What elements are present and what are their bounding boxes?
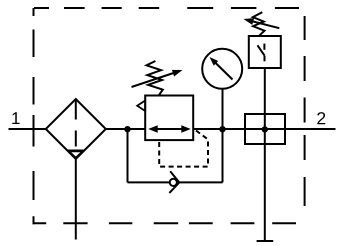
outlet module box — [245, 114, 285, 144]
regulator flow path double arrow line — [153, 128, 186, 130]
wire: bypass lower line right — [179, 181, 222, 183]
filter separator triangle — [69, 151, 83, 157]
port 1 label — [12, 112, 19, 124]
service unit enclosure dashed frame left — [33, 8, 35, 224]
wire: relief valve to outlet module — [264, 68, 266, 114]
exhaust end bar — [257, 240, 274, 242]
filter separator chord — [67, 150, 84, 152]
node: junction downstream of regulator (gauge tap) — [219, 126, 225, 132]
relief valve seat stub — [263, 44, 265, 50]
regulator flow arrowhead left — [148, 125, 158, 132]
regulator adjustment arrow shaft — [132, 73, 176, 88]
relief valve poppet lower stem — [264, 56, 266, 62]
regulator vent triangle — [137, 101, 145, 112]
wire: filter to regulator — [106, 128, 145, 130]
relief valve spring — [253, 12, 265, 36]
wire: bypass lower line left — [128, 181, 170, 183]
relief valve adjustment arrowhead — [244, 18, 255, 25]
node: junction upstream of regulator — [124, 126, 130, 132]
relief valve body box — [249, 36, 281, 68]
regulator flow arrowhead right — [181, 125, 191, 132]
pressure gauge needle shaft — [214, 61, 233, 79]
service unit enclosure dashed frame right — [304, 16, 306, 206]
service unit enclosure dashed frame bottom — [33, 222, 297, 224]
check valve seat — [169, 171, 179, 193]
service unit enclosure dashed frame top — [34, 7, 299, 9]
pressure gauge stem — [222, 89, 224, 129]
port 2 label — [317, 112, 325, 124]
wire: bypass branch down from upstream node — [127, 129, 129, 182]
filter F1 body (diamond) — [46, 99, 106, 159]
wire: exhaust line through outlet module — [264, 114, 266, 240]
filter condensate drain line — [75, 159, 77, 240]
filter centerline lower segment — [75, 131, 77, 147]
pressure gauge needle arrowhead — [210, 57, 219, 66]
wire: regulator to outlet module — [193, 128, 245, 130]
regulator body box — [145, 96, 193, 141]
node: junction at outlet module center — [262, 126, 268, 132]
wire: bypass branch up to downstream node — [222, 129, 224, 182]
filter centerline upper segment — [75, 100, 77, 120]
pressure gauge dial — [202, 49, 242, 89]
wire: inlet line port 1 to filter — [9, 128, 46, 130]
relief valve adjustment arrow shaft — [251, 21, 279, 28]
wire: line through outlet module to port 2 — [245, 128, 336, 130]
regulator adjustment arrowhead — [172, 70, 183, 77]
check valve ball — [170, 179, 177, 186]
regulator spring — [147, 61, 163, 96]
relief valve poppet lever — [258, 45, 265, 55]
regulator pilot line (dashed) — [159, 131, 208, 167]
